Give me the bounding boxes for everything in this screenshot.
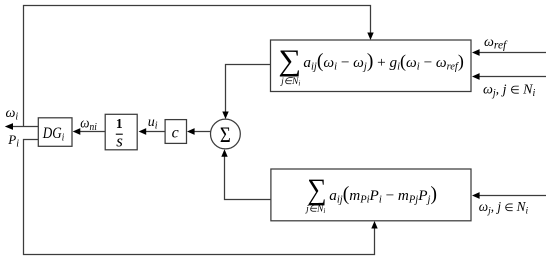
arrowhead omega_ref [472, 49, 480, 56]
block DG_i [38, 118, 72, 147]
wire bottom block output to sum [225, 155, 271, 200]
arrowhead into DG_i [73, 128, 81, 135]
svg-text:j∈Ni: j∈Ni [279, 77, 300, 88]
wire omega_i output [12, 126, 38, 128]
wire omega_ref input [478, 52, 546, 54]
wire 1/s to DG_i [79, 131, 105, 133]
arrowhead omega_i output [5, 123, 13, 130]
arrowhead omega_j top [472, 73, 480, 80]
svg-text:1: 1 [116, 116, 123, 131]
block gain c [165, 120, 186, 144]
arrowhead into 1/s [139, 128, 147, 135]
wire omega_j input bottom block [479, 195, 547, 197]
svg-text:aij(mPiPi − mPjPj): aij(mPiPi − mPjPj) [329, 184, 437, 206]
arrowhead into sum bottom [221, 149, 227, 157]
wire top block output to sum [226, 65, 271, 114]
svg-text:DGi: DGi [42, 125, 65, 144]
wire omega_i feedback top loop [24, 6, 371, 127]
svg-text:ωj, j ∈ Ni: ωj, j ∈ Ni [483, 83, 536, 100]
svg-text:Σ: Σ [220, 124, 231, 148]
svg-text:∑: ∑ [278, 43, 301, 77]
summing junction circle [211, 119, 241, 149]
arrowhead omega_j bottom [472, 192, 480, 199]
block frequency consensus (top) [271, 40, 472, 92]
arrowhead into bottom of droop block [371, 221, 377, 229]
svg-text:j∈Ni: j∈Ni [304, 205, 325, 216]
svg-text:ωj, j ∈ Ni: ωj, j ∈ Ni [479, 199, 529, 216]
wire c to 1/s [146, 131, 166, 133]
svg-text:aij(ωi − ωj) + gi(ωi − ωref): aij(ωi − ωj) + gi(ωi − ωref) [303, 51, 463, 73]
block power sharing (bottom) [271, 169, 471, 221]
svg-text:s: s [116, 131, 123, 150]
wire P_i feedback bottom loop [24, 140, 375, 255]
block integrator 1/s [105, 114, 137, 150]
wire omega_j input top block [478, 76, 546, 78]
svg-text:∑: ∑ [307, 174, 326, 206]
arrowhead into c [187, 128, 195, 135]
arrowhead into sum top [222, 112, 228, 120]
wire sum to c [194, 131, 211, 133]
svg-text:c: c [172, 125, 179, 142]
arrowhead into top of summation block [367, 33, 373, 41]
